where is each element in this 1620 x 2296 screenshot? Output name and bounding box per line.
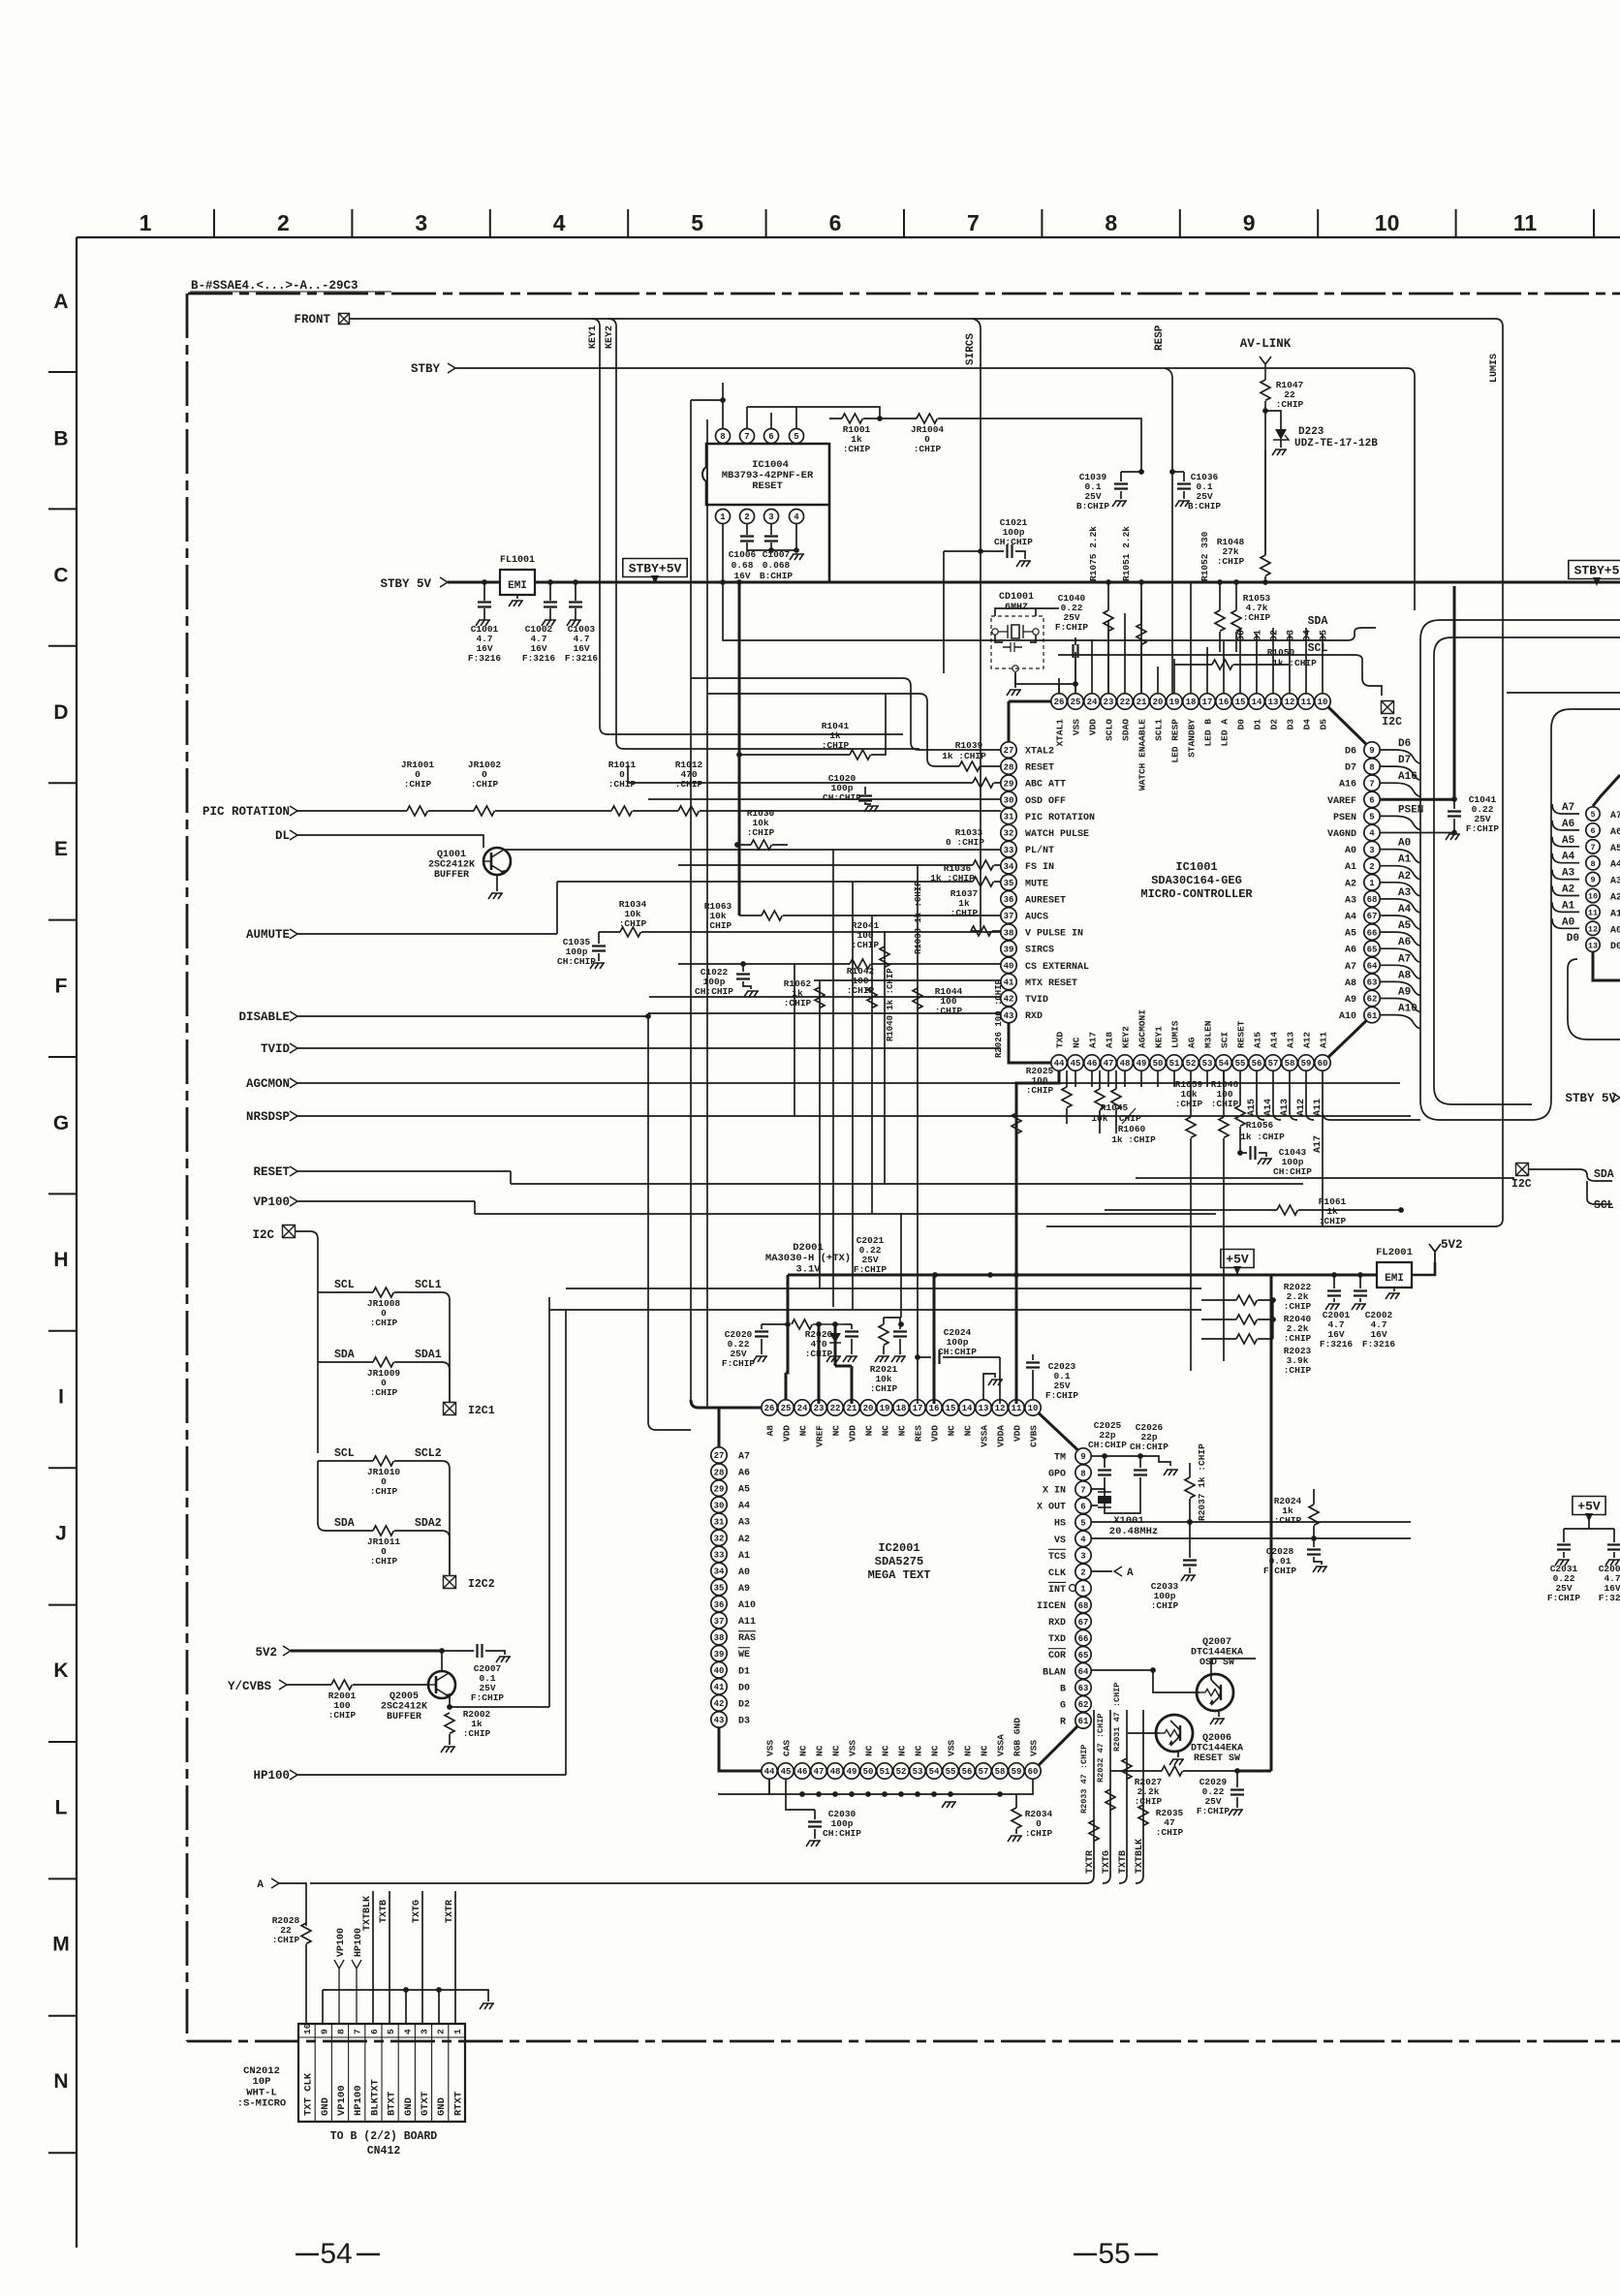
svg-text:16V: 16V [733, 571, 750, 581]
svg-text:F: F [55, 976, 68, 998]
svg-text:1: 1 [452, 2029, 463, 2034]
wire Q2005 emitter [449, 1696, 451, 1707]
wire pin30 [648, 798, 1001, 800]
svg-text:GTXT: GTXT [420, 2092, 431, 2116]
svg-text:A0: A0 [1398, 838, 1411, 850]
node TXTB line [389, 1891, 390, 2024]
svg-text::CHIP: :CHIP [1284, 1301, 1312, 1312]
svg-text:A12: A12 [1302, 1032, 1313, 1048]
svg-text:19: 19 [880, 1404, 890, 1413]
wire VS long [1091, 1537, 1411, 1539]
svg-text:A7: A7 [1398, 953, 1411, 965]
wire xtal bus [1015, 672, 1075, 694]
svg-text:7: 7 [353, 2029, 363, 2034]
svg-text:CAS: CAS [782, 1740, 793, 1756]
svg-text:G: G [53, 1112, 69, 1134]
svg-text:38: 38 [1004, 928, 1014, 938]
svg-text:INT: INT [1048, 1585, 1066, 1596]
svg-text:34: 34 [1004, 862, 1014, 872]
svg-text:D5: D5 [1319, 719, 1329, 730]
svg-text::CHIP: :CHIP [1026, 1085, 1054, 1096]
wire pin44 thick drop [1016, 1070, 1059, 1275]
svg-text:A8: A8 [1345, 978, 1356, 989]
svg-text:SDA: SDA [334, 1349, 355, 1361]
capacitor C2033 [1189, 1522, 1191, 1558]
svg-text:2: 2 [744, 512, 749, 522]
svg-text:34: 34 [714, 1567, 725, 1577]
svg-text:18: 18 [1186, 698, 1197, 707]
svg-text:A6: A6 [1562, 819, 1574, 830]
svg-text:24: 24 [1087, 698, 1098, 707]
svg-text::CHIP: :CHIP [1175, 1099, 1203, 1109]
wire KEY2 [608, 319, 919, 749]
svg-text:RESET: RESET [253, 1165, 290, 1179]
wire A long line [310, 1882, 1086, 1884]
svg-text:A3: A3 [738, 1518, 750, 1529]
svg-text:36: 36 [1004, 895, 1014, 905]
svg-text::CHIP: :CHIP [370, 1486, 398, 1497]
svg-text:5: 5 [794, 432, 798, 442]
svg-text:Q2007: Q2007 [1202, 1637, 1231, 1648]
svg-text:44: 44 [1054, 1059, 1065, 1069]
wire RESP tag drop [1165, 368, 1172, 694]
svg-text:RESP: RESP [1154, 325, 1166, 351]
svg-text:TXTBLK: TXTBLK [362, 1896, 373, 1931]
svg-text:AGCMONI: AGCMONI [1137, 1009, 1148, 1048]
svg-text:BLAN: BLAN [1043, 1667, 1066, 1678]
svg-text:R2026 100 :CHIP: R2026 100 :CHIP [994, 978, 1004, 1058]
wire G row2 [549, 1309, 1201, 1311]
svg-text:65: 65 [1078, 1651, 1089, 1660]
net label STBY+5V [623, 559, 687, 577]
svg-text:NC: NC [963, 1745, 974, 1756]
svg-text::CHIP: :CHIP [1151, 1600, 1179, 1611]
svg-text:B:CHIP: B:CHIP [1188, 501, 1222, 512]
wire pin21 col [835, 1366, 852, 1404]
wire DISABLE [297, 1015, 648, 1017]
svg-text:A15: A15 [1247, 1099, 1258, 1116]
svg-text:6: 6 [369, 2029, 380, 2034]
svg-text:STBY+5: STBY+5 [1574, 564, 1620, 578]
node TXTR line [454, 1891, 456, 2024]
svg-text:NC: NC [798, 1425, 809, 1437]
svg-text:A3: A3 [1562, 868, 1575, 880]
svg-text:11: 11 [1588, 908, 1598, 917]
connector I2C right [1136, 1177, 1514, 1179]
wire HS [1091, 1521, 1411, 1523]
svg-text:LUMIS: LUMIS [1489, 354, 1500, 383]
svg-text:HP100: HP100 [253, 1769, 290, 1783]
svg-text:9: 9 [1243, 210, 1256, 235]
svg-text:VREF: VREF [815, 1425, 826, 1447]
svg-text:VDD: VDD [848, 1425, 858, 1442]
svg-text:CVBS: CVBS [1029, 1425, 1040, 1447]
wire xout link [1091, 1489, 1105, 1505]
svg-text:WATCH ENAABLE: WATCH ENAABLE [1137, 719, 1148, 791]
svg-text:5: 5 [386, 2029, 396, 2034]
svg-text:A2: A2 [1345, 879, 1356, 889]
connector CN2012 [298, 2024, 465, 2122]
svg-text:62: 62 [1367, 995, 1378, 1005]
svg-text:R1040 1k :CHIP: R1040 1k :CHIP [886, 968, 895, 1041]
svg-text:VDD: VDD [1088, 719, 1099, 735]
svg-text:50: 50 [1153, 1059, 1164, 1069]
svg-text:F:CHIP: F:CHIP [1547, 1593, 1581, 1603]
svg-text:45: 45 [1071, 1059, 1081, 1069]
svg-text:4: 4 [1080, 1536, 1086, 1545]
svg-text:68: 68 [1367, 895, 1378, 905]
net label STBY+5V right [1569, 561, 1620, 579]
svg-text:TXTB: TXTB [379, 1900, 389, 1923]
svg-text:63: 63 [1367, 978, 1378, 988]
svg-text:XTAL2: XTAL2 [1025, 747, 1054, 758]
svg-text:46: 46 [797, 1767, 808, 1777]
svg-text:22: 22 [830, 1404, 841, 1413]
svg-text:A3: A3 [1345, 895, 1356, 906]
svg-text:AG: AG [1187, 1037, 1198, 1048]
svg-text:B:CHIP: B:CHIP [760, 571, 794, 581]
svg-text:41: 41 [1004, 978, 1014, 988]
svg-text:A8: A8 [1398, 970, 1412, 981]
svg-text:59: 59 [1012, 1767, 1022, 1777]
svg-text:9: 9 [319, 2029, 329, 2034]
svg-text:25: 25 [1071, 698, 1081, 707]
svg-text:60: 60 [1028, 1767, 1039, 1777]
svg-text:Q1001: Q1001 [437, 850, 466, 860]
svg-text:A16: A16 [1339, 780, 1356, 791]
svg-text:K: K [53, 1660, 68, 1682]
svg-text:TXD: TXD [1048, 1634, 1066, 1645]
svg-text:0.068: 0.068 [763, 560, 791, 571]
wire row to pin28 [707, 694, 959, 766]
svg-text:A3: A3 [1610, 877, 1620, 887]
svg-text:16: 16 [929, 1404, 940, 1413]
svg-text:3: 3 [1369, 846, 1374, 855]
svg-text:SDA1: SDA1 [415, 1349, 442, 1361]
transistor Q2006 [1156, 1715, 1193, 1752]
svg-text:31: 31 [714, 1517, 725, 1527]
svg-text:AUCS: AUCS [1025, 913, 1048, 923]
svg-text::CHIP: :CHIP [404, 779, 432, 790]
wire bus box inner [1434, 637, 1620, 1104]
wire IC1001 top pin stubs [1058, 678, 1060, 694]
svg-text:4: 4 [1369, 829, 1375, 839]
svg-text:RESET SW: RESET SW [1194, 1753, 1240, 1764]
svg-text:60: 60 [1318, 1059, 1328, 1069]
resistor R2023 [1236, 1334, 1257, 1344]
svg-text:25: 25 [781, 1404, 792, 1413]
svg-text:I2C: I2C [1511, 1178, 1532, 1191]
resistor R2020 [792, 1319, 812, 1329]
svg-text:TXD: TXD [1055, 1032, 1066, 1048]
svg-text:D0: D0 [738, 1683, 750, 1693]
svg-text:55: 55 [946, 1767, 956, 1777]
svg-text:23: 23 [1104, 698, 1114, 707]
svg-text:62: 62 [1078, 1700, 1089, 1710]
wire AGCMON [297, 1082, 1400, 1084]
svg-text:NC: NC [798, 1745, 809, 1756]
connector I2C1 [444, 1403, 456, 1415]
svg-text:CN412: CN412 [367, 2145, 401, 2157]
wire pin44 exit [718, 1779, 769, 1794]
svg-text:D2: D2 [738, 1699, 750, 1710]
svg-text:C1007: C1007 [763, 549, 791, 560]
wire thick stby drop [738, 582, 741, 915]
svg-text:R: R [1060, 1717, 1066, 1727]
capacitor C1041 [1453, 586, 1456, 799]
wire VP100 [297, 1201, 1216, 1214]
svg-text:5V2: 5V2 [1441, 1238, 1463, 1252]
node TXTBLK line [372, 1891, 374, 2024]
border frame ruler [77, 236, 1620, 238]
svg-text:EMI: EMI [1385, 1273, 1404, 1285]
svg-text:GND: GND [403, 2097, 415, 2116]
svg-text:VSS: VSS [1029, 1740, 1040, 1756]
svg-text:F:3216: F:3216 [1320, 1339, 1354, 1350]
svg-text:F:CHIP: F:CHIP [1466, 823, 1500, 834]
svg-text::CHIP: :CHIP [914, 444, 942, 454]
svg-text:12: 12 [1285, 698, 1295, 707]
svg-text:A14: A14 [1263, 1099, 1274, 1116]
svg-text:53: 53 [1202, 1059, 1213, 1069]
wire pin34 [678, 864, 1001, 866]
node HP100 arrow [352, 1960, 361, 2024]
svg-text:36: 36 [714, 1600, 725, 1610]
svg-text:A6: A6 [1398, 937, 1411, 948]
svg-text:A6: A6 [738, 1469, 750, 1479]
svg-text:11: 11 [1513, 210, 1538, 235]
svg-text::CHIP: :CHIP [870, 1383, 898, 1394]
svg-text:SCL: SCL [1594, 1199, 1614, 1212]
board outline dash-dot border [188, 293, 1620, 295]
svg-text:A5: A5 [1562, 835, 1575, 847]
svg-text:15: 15 [1235, 698, 1246, 707]
wire KEY1 [592, 319, 903, 734]
svg-text:J: J [55, 1523, 67, 1545]
svg-text:D1: D1 [738, 1666, 750, 1677]
svg-text:RESET: RESET [1236, 1020, 1247, 1048]
svg-text::CHIP: :CHIP [608, 779, 637, 790]
svg-text:A7: A7 [1345, 962, 1356, 973]
svg-text:R2037 1k :CHIP: R2037 1k :CHIP [1197, 1443, 1207, 1521]
svg-text:NC: NC [897, 1425, 908, 1437]
wire pin43 RXD [648, 1012, 1001, 1014]
diode D223 zener [1265, 411, 1281, 429]
svg-text:10: 10 [1318, 698, 1328, 707]
wire 5V rail main [1334, 1274, 1377, 1277]
svg-text:SCL: SCL [334, 1279, 355, 1291]
svg-text:30: 30 [1004, 796, 1014, 806]
ic memory right edge partial [1586, 807, 1600, 821]
svg-text:TO B (2/2) BOARD: TO B (2/2) BOARD [330, 2130, 438, 2143]
capacitor C1002 [549, 582, 551, 601]
svg-text:CH:CHIP: CH:CHIP [1273, 1166, 1312, 1177]
svg-text::CHIP: :CHIP [1135, 1796, 1163, 1807]
svg-text::CHIP: :CHIP [1284, 1333, 1312, 1344]
wire IC1001 right pin fanout [1380, 750, 1420, 763]
resistor JR1002 [474, 806, 494, 816]
capacitor C1006 [746, 524, 748, 535]
wire pin40 CS EXTERNAL [678, 963, 1001, 965]
svg-text:PIC ROTATION: PIC ROTATION [202, 805, 290, 819]
ic IC1004 reset supervisor [706, 444, 829, 505]
svg-text:RES: RES [914, 1425, 924, 1442]
wire pin42 TVID [649, 996, 1001, 998]
svg-text:IC2001: IC2001 [878, 1541, 919, 1555]
svg-text::S-MICRO: :S-MICRO [237, 2097, 286, 2109]
wire vertical bus x730 [706, 419, 708, 1408]
svg-text:24: 24 [797, 1404, 808, 1413]
svg-text:D6: D6 [1398, 738, 1411, 750]
svg-text:19: 19 [1169, 698, 1180, 707]
svg-text:49: 49 [847, 1767, 857, 1777]
svg-text:41: 41 [714, 1683, 725, 1692]
svg-text:Y/CVBS: Y/CVBS [228, 1680, 272, 1693]
svg-text:VSS: VSS [765, 1740, 776, 1756]
resistor JR1001 [407, 806, 427, 816]
svg-text:5: 5 [1369, 813, 1374, 822]
svg-text:9: 9 [1369, 746, 1374, 756]
svg-text:38: 38 [714, 1633, 725, 1643]
svg-text:42: 42 [714, 1699, 725, 1709]
svg-text:VSS: VSS [1072, 719, 1082, 735]
svg-text:42: 42 [1004, 995, 1014, 1005]
svg-text:10: 10 [302, 2023, 313, 2034]
svg-text:IICEN: IICEN [1037, 1601, 1066, 1612]
resistor R2040 [1236, 1315, 1257, 1324]
svg-text:F:321: F:321 [1599, 1593, 1620, 1603]
crystal X1001 [1098, 1491, 1111, 1493]
svg-text:B: B [53, 427, 68, 450]
node A15-A11 tags [1257, 1070, 1264, 1120]
svg-text:11: 11 [1012, 1404, 1022, 1413]
resistor R2002 [445, 1713, 454, 1733]
wire Q2007 collector [1211, 1659, 1256, 1680]
svg-text:10: 10 [1375, 210, 1400, 235]
capacitor near zener [851, 1324, 853, 1329]
svg-text:A2: A2 [738, 1535, 750, 1545]
wire vdda vdd drops [917, 1318, 919, 1404]
wire disable to ic2001 [648, 1422, 691, 1430]
svg-text:33: 33 [714, 1551, 725, 1561]
svg-text:MTX RESET: MTX RESET [1025, 978, 1077, 989]
svg-text:SDA: SDA [1308, 615, 1328, 628]
svg-text:I2C2: I2C2 [468, 1578, 495, 1591]
svg-text:A9: A9 [738, 1584, 750, 1595]
svg-text:21: 21 [847, 1404, 857, 1413]
svg-text:A10: A10 [1339, 1011, 1356, 1022]
svg-text:LED B: LED B [1203, 719, 1214, 747]
svg-text:TXT CLK: TXT CLK [303, 2072, 315, 2116]
svg-text:9: 9 [1080, 1452, 1085, 1462]
svg-text:32: 32 [1004, 829, 1014, 839]
svg-text:1k :CHIP: 1k :CHIP [1111, 1134, 1156, 1145]
svg-text:4: 4 [794, 512, 799, 522]
svg-text:TXTB: TXTB [1118, 1850, 1129, 1874]
svg-text:A13: A13 [1280, 1099, 1291, 1116]
svg-text:N: N [53, 2070, 68, 2093]
svg-text:8: 8 [336, 2029, 347, 2034]
svg-text:Q2006: Q2006 [1202, 1733, 1231, 1744]
wire PIC ROTATION [297, 810, 1001, 812]
svg-text:C: C [53, 565, 68, 587]
svg-text:1: 1 [1369, 879, 1375, 888]
svg-text:D: D [53, 701, 68, 724]
svg-text:12: 12 [995, 1404, 1006, 1413]
svg-text:NC: NC [930, 1745, 941, 1756]
wire vertical bus x713 [690, 400, 692, 1400]
svg-text:DTC144EKA: DTC144EKA [1191, 1744, 1243, 1754]
svg-text:39: 39 [1004, 945, 1014, 954]
svg-text:53: 53 [913, 1767, 923, 1777]
svg-text:8: 8 [1105, 210, 1117, 235]
svg-text:CH:CHIP: CH:CHIP [938, 1347, 977, 1357]
svg-text:3: 3 [1080, 1552, 1085, 1562]
svg-text:KEY1: KEY1 [588, 326, 599, 349]
svg-text:A1: A1 [1345, 862, 1356, 873]
svg-text:A2: A2 [1562, 884, 1574, 896]
svg-text:A5: A5 [1610, 844, 1620, 854]
svg-text:UDZ-TE-17-12B: UDZ-TE-17-12B [1294, 438, 1378, 450]
svg-text:M: M [52, 1934, 70, 1956]
svg-text:47: 47 [814, 1767, 825, 1777]
svg-text:BTXT: BTXT [387, 2092, 398, 2116]
svg-text:D7: D7 [1345, 763, 1356, 774]
svg-text:CH:CHIP: CH:CHIP [695, 986, 733, 997]
svg-text:17: 17 [913, 1404, 923, 1413]
svg-text:RAS: RAS [738, 1633, 756, 1644]
wire A-bus under IC1001 [1330, 1119, 1420, 1121]
svg-text:NC: NC [897, 1745, 908, 1756]
svg-text:GND: GND [436, 2097, 448, 2116]
svg-text:PSEN: PSEN [1333, 813, 1356, 823]
svg-text:CD1001: CD1001 [999, 592, 1034, 603]
wire IC2001 pin25 feed [707, 1407, 732, 1409]
svg-text:D0: D0 [1236, 719, 1247, 730]
svg-text:A15: A15 [1253, 1032, 1263, 1048]
wire 3.1V rail [788, 1274, 1411, 1277]
capacitor C1043 [1240, 1152, 1247, 1154]
svg-text::CHIP: :CHIP [852, 940, 880, 950]
svg-text:F:3216: F:3216 [468, 653, 502, 664]
svg-text:CS EXTERNAL: CS EXTERNAL [1025, 962, 1089, 973]
svg-text:F:3216: F:3216 [522, 653, 556, 664]
svg-text:7: 7 [1080, 1485, 1085, 1495]
svg-text:VSS: VSS [848, 1740, 858, 1756]
svg-text:14: 14 [962, 1404, 973, 1413]
svg-text:A5: A5 [738, 1485, 750, 1496]
svg-text:D6: D6 [1345, 747, 1356, 758]
svg-text:SCL1: SCL1 [415, 1279, 442, 1291]
svg-text:14: 14 [1252, 698, 1262, 707]
wire pin35 MUTE [557, 881, 1001, 883]
transistor Q1001 [483, 848, 511, 875]
svg-text:SCLO: SCLO [1105, 719, 1115, 741]
svg-text:A9: A9 [1398, 987, 1411, 999]
net label +5V [1221, 1250, 1254, 1268]
svg-text:+5V: +5V [1226, 1253, 1249, 1267]
svg-text:46: 46 [1087, 1059, 1098, 1069]
svg-text:A5: A5 [1398, 920, 1412, 932]
wire DL [297, 835, 483, 848]
svg-text:VAGND: VAGND [1327, 829, 1356, 840]
svg-text:SCL2: SCL2 [415, 1447, 442, 1460]
svg-text:28: 28 [714, 1468, 725, 1477]
svg-text:8: 8 [1369, 762, 1374, 772]
svg-text:31: 31 [1004, 813, 1014, 822]
svg-text:2: 2 [1080, 1568, 1085, 1578]
svg-text:B-#SSAE4.<...>-A..-29C3: B-#SSAE4.<...>-A..-29C3 [191, 279, 358, 293]
